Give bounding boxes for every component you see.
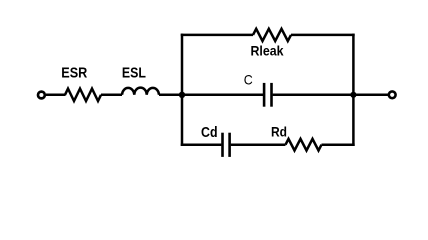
wire: right vertical riser (top and bottom rails to node B) xyxy=(352,34,355,146)
wire: input terminal to ESR xyxy=(46,94,66,97)
wire: bottom rail right segment (Rd to node B) xyxy=(322,143,355,146)
output terminal (right open circle) xyxy=(389,91,396,98)
svg-text:Cd: Cd xyxy=(201,125,218,141)
input terminal (left open circle) xyxy=(38,92,45,99)
capacitor C xyxy=(264,83,271,107)
wire: node A to capacitor C xyxy=(182,94,263,97)
svg-text:Rleak: Rleak xyxy=(251,43,284,59)
junction node A xyxy=(179,92,185,98)
wire: bottom rail left segment (node A to Cd) xyxy=(181,143,222,146)
resistor Rd xyxy=(286,139,322,151)
capacitor Cd xyxy=(223,133,230,157)
inductor ESL xyxy=(122,88,159,95)
junction node B xyxy=(350,92,356,98)
wire: top rail right segment xyxy=(291,34,355,37)
wire: left vertical riser (node A to top and bottom rails) xyxy=(181,34,184,146)
svg-text:C: C xyxy=(244,72,253,88)
resistor ESR xyxy=(65,89,101,101)
svg-text:Rd: Rd xyxy=(271,123,287,139)
svg-text:ESR: ESR xyxy=(61,65,87,82)
wire: Cd to Rd xyxy=(231,143,286,146)
wire: ESR to ESL xyxy=(101,94,122,97)
wire: top rail left segment xyxy=(181,34,253,37)
wire: ESL to node A xyxy=(159,94,182,97)
wire: node B to output terminal xyxy=(353,94,388,97)
resistor Rleak xyxy=(253,29,291,41)
wire: capacitor C to node B xyxy=(273,94,354,97)
svg-text:ESL: ESL xyxy=(122,65,146,82)
